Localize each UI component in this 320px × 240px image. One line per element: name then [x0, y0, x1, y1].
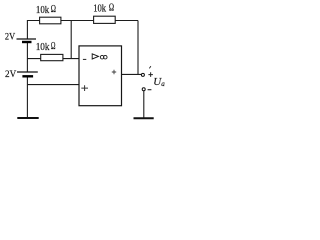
- wire: non-inverting input row: [27, 84, 79, 86]
- label: Ua output voltage: [153, 76, 165, 88]
- op-amp U1 body (DIN rectangle): [79, 46, 122, 106]
- wire: op-amp output to + terminal: [122, 73, 142, 75]
- op-amp U1 gain symbol: triangle and infinity: [92, 54, 107, 59]
- ground (right, output − terminal): [134, 117, 154, 119]
- resistor R3 (10kΩ, input from battery midpoint): [41, 54, 63, 60]
- wire: − terminal down to right ground: [143, 91, 145, 118]
- op-amp U1 output polarity marker +: [112, 70, 116, 74]
- label: R3 value 10k Ω: [36, 41, 56, 53]
- label: R1 value 10k Ω: [36, 4, 56, 16]
- svg-text:10k: 10k: [36, 5, 49, 16]
- wire: left rail between batteries: [26, 42, 28, 72]
- battery V2 (2V): long + plate and short thick − plate: [17, 72, 38, 76]
- terminal: output − (open circle): [142, 88, 145, 91]
- svg-text:10k: 10k: [36, 42, 50, 53]
- svg-text:10k: 10k: [93, 4, 106, 15]
- svg-text:2V: 2V: [5, 70, 16, 80]
- svg-text:2V: 2V: [5, 32, 16, 42]
- resistor R1 (10kΩ, input from battery top): [40, 17, 61, 24]
- wire: top rail from battery to feedback corner: [27, 20, 138, 22]
- svg-text:Ω: Ω: [109, 2, 114, 13]
- wire: left rail top section: [26, 20, 28, 39]
- label: output − polarity: [148, 89, 152, 91]
- label: R2 value 10k Ω: [93, 2, 114, 14]
- label: V2 value 2V: [5, 70, 16, 80]
- label: V1 value 2V: [5, 32, 16, 42]
- resistor R2 (10kΩ, feedback): [94, 16, 116, 23]
- op-amp U1 non-inverting input marker +: [81, 85, 88, 91]
- op-amp U1 inverting input marker −: [83, 58, 86, 60]
- terminal: output + (open circle): [141, 73, 144, 76]
- wire: left rail bottom to ground: [26, 77, 28, 119]
- wire: inverting input row: [27, 58, 79, 60]
- wire: drop from feedback resistor to output node: [137, 21, 139, 75]
- wire: drop from top rail to inverting input node: [70, 21, 72, 59]
- ground (left, battery bottom): [17, 117, 38, 119]
- svg-text:Ω: Ω: [51, 41, 56, 52]
- svg-text:a: a: [161, 80, 165, 88]
- svg-text:Ω: Ω: [51, 4, 56, 15]
- battery V1 (2V): long + plate and short thick − plate: [17, 39, 37, 42]
- label: output + polarity with prime tick: [148, 66, 153, 77]
